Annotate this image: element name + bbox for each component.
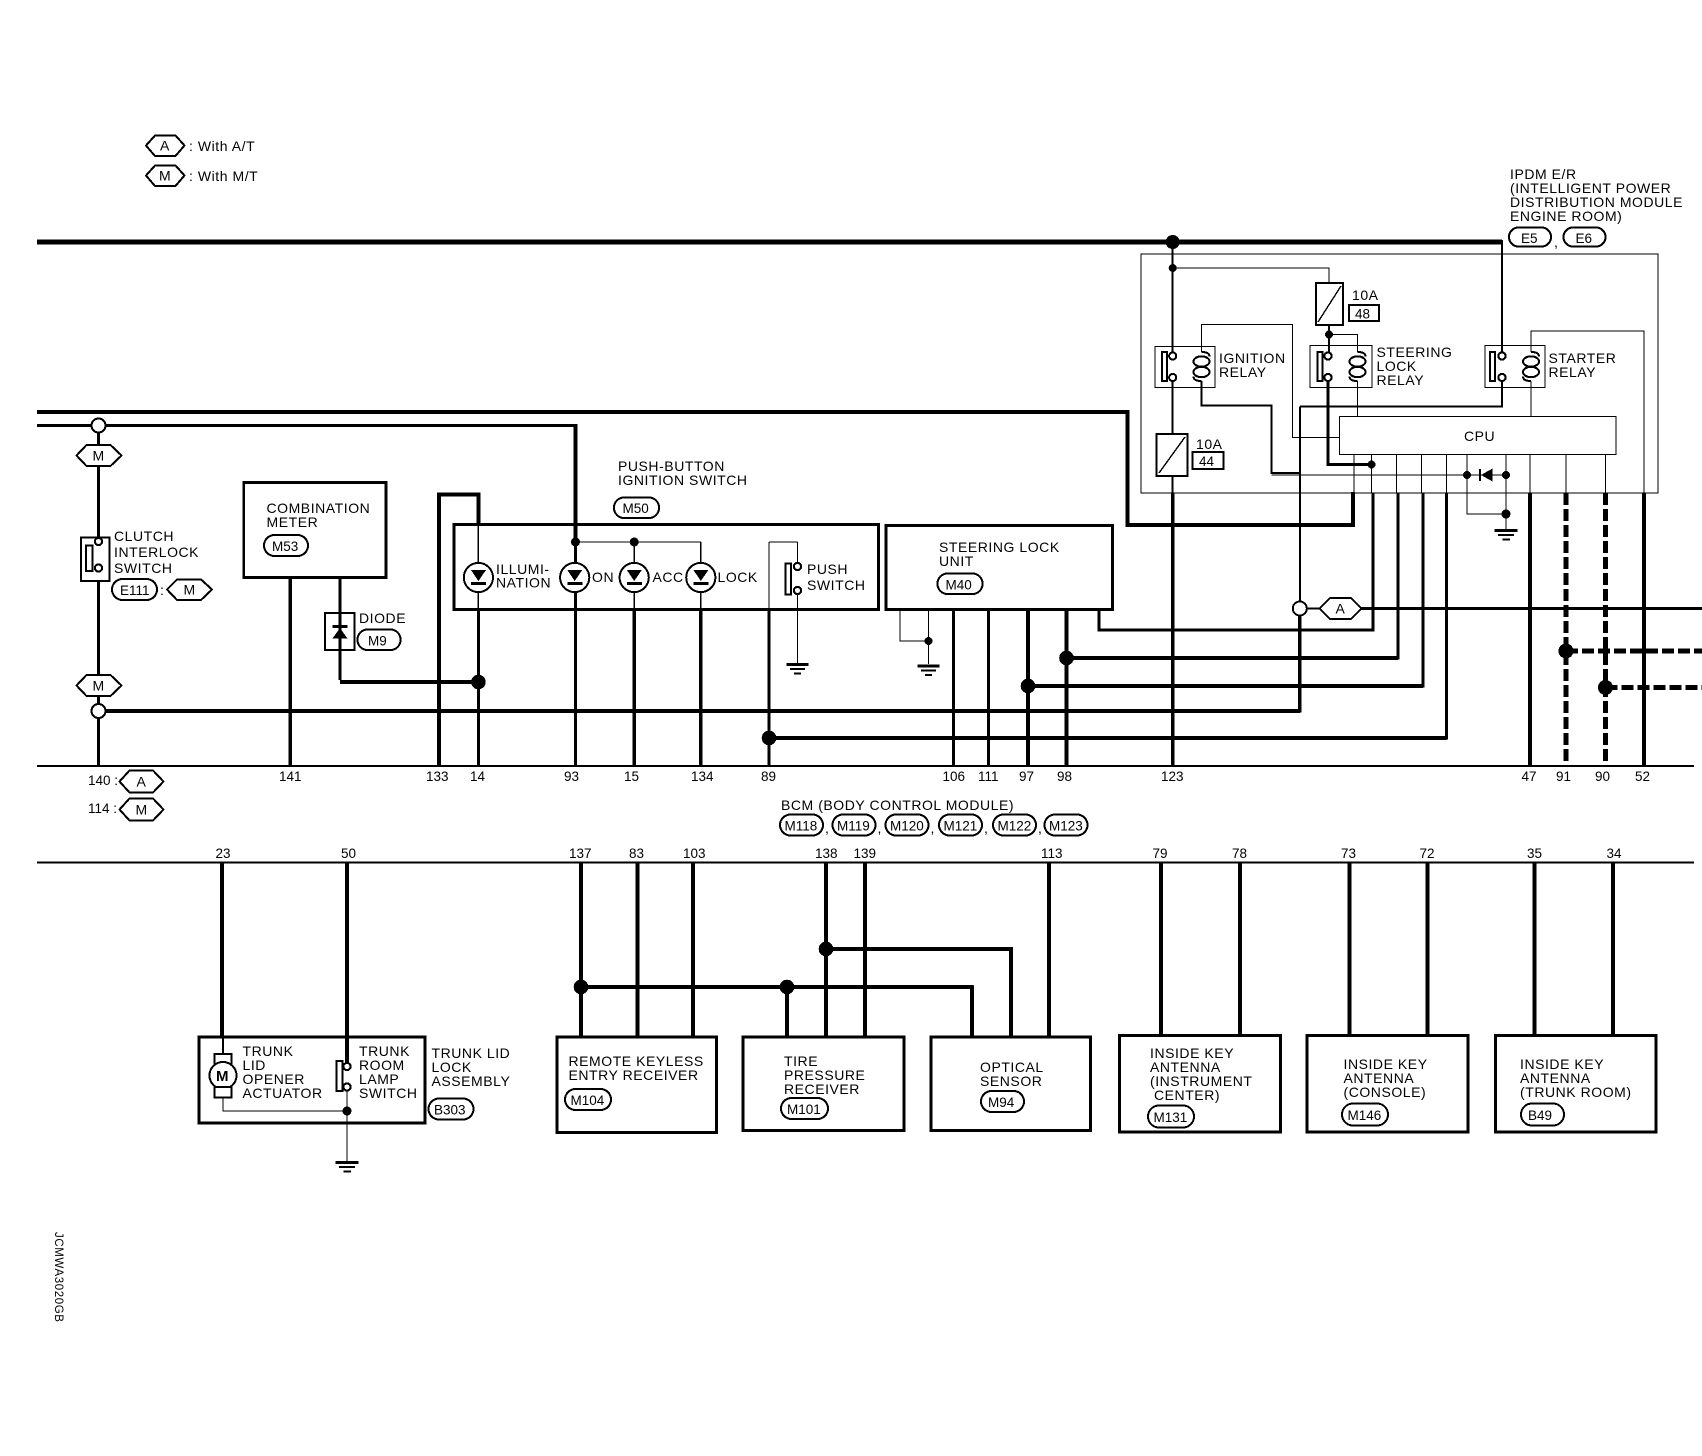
svg-text:78: 78 xyxy=(1232,846,1247,861)
svg-text:23: 23 xyxy=(216,846,231,861)
wire BCM pin 134 drop from LOCK xyxy=(699,609,702,766)
wire optical sensor left pin drop xyxy=(970,986,974,1038)
ground steering lock unit xyxy=(918,666,940,675)
lamp LOCK xyxy=(686,560,758,609)
node hexagon M upper xyxy=(77,445,122,466)
wire CPU pin7 ground leg xyxy=(1505,475,1507,529)
wire corner third bus down to push-button switch ON xyxy=(574,424,578,543)
svg-text:M104: M104 xyxy=(571,1093,605,1108)
node connector circle on third bus (M/T branch) xyxy=(92,419,106,433)
wire BCM pin 139 drop xyxy=(863,863,867,1038)
pin label 140 A/T xyxy=(88,771,164,793)
wire BCM pin 34 drop xyxy=(1611,863,1615,1036)
svg-text:A: A xyxy=(1336,601,1346,617)
wire BCM pin 137 drop xyxy=(579,863,583,1038)
svg-text:98: 98 xyxy=(1057,769,1072,784)
svg-text:ENTRY RECEIVER: ENTRY RECEIVER xyxy=(569,1067,699,1083)
svg-text:111: 111 xyxy=(978,769,999,784)
svg-text:M120: M120 xyxy=(890,819,924,834)
svg-text:,: , xyxy=(931,820,935,836)
svg-text:SENSOR: SENSOR xyxy=(980,1073,1042,1089)
svg-text:M122: M122 xyxy=(998,819,1032,834)
svg-text:73: 73 xyxy=(1341,846,1356,861)
svg-text:RELAY: RELAY xyxy=(1549,364,1597,380)
svg-text:SWITCH: SWITCH xyxy=(807,577,866,593)
connector M118 xyxy=(780,815,829,837)
node junction steering contact to pin line xyxy=(1368,461,1376,469)
svg-text:35: 35 xyxy=(1527,846,1542,861)
svg-text:ASSEMBLY: ASSEMBLY xyxy=(432,1073,511,1089)
svg-text:M118: M118 xyxy=(785,819,818,834)
IPDM E/R box xyxy=(1141,254,1658,493)
connector M120 xyxy=(886,815,935,837)
trunk lid lock assembly box B303 xyxy=(199,1037,425,1123)
svg-text:97: 97 xyxy=(1019,769,1034,784)
wire CPU pin 1 xyxy=(1353,455,1355,494)
svg-text:A: A xyxy=(160,138,170,154)
ground push switch xyxy=(787,665,809,674)
wire tire pressure left pin drop xyxy=(785,987,789,1037)
wire BCM pin 89 drop from push switch xyxy=(767,609,770,766)
node junction trunk ground xyxy=(343,1107,352,1116)
svg-text:91: 91 xyxy=(1556,769,1571,784)
wire CPU pin 3 xyxy=(1396,455,1398,494)
trunk lid lock assembly label B303 xyxy=(429,1045,511,1120)
wire hexagon M lower to connector circle xyxy=(97,696,100,705)
svg-text:83: 83 xyxy=(629,846,644,861)
node junction on top bus feeding IPDM xyxy=(1166,235,1180,249)
wire starter coil bottom to CPU xyxy=(1530,381,1532,417)
node hexagon A split xyxy=(1320,598,1362,619)
combination meter M53 xyxy=(244,483,386,578)
wire BCM pin 35 drop xyxy=(1533,863,1537,1036)
wire SLU ground pin jog xyxy=(900,610,929,642)
wire BCM pin 15 drop from ACC xyxy=(633,609,636,766)
legend hexagon A : With A/T xyxy=(146,136,255,157)
node junction pin 90 xyxy=(1598,680,1613,695)
svg-text:140 :: 140 : xyxy=(88,773,118,788)
connector M119 xyxy=(833,815,882,837)
wire run to fuse 48 xyxy=(1173,268,1329,283)
wire BCM pin 138 drop xyxy=(824,863,828,1038)
wire BCM pin 50 drop xyxy=(345,863,349,1064)
wire IPDM drop to pin 89 run xyxy=(1445,493,1448,740)
connector E5 xyxy=(1509,228,1558,251)
svg-text:48: 48 xyxy=(1355,307,1370,322)
svg-text:RELAY: RELAY xyxy=(1377,372,1425,388)
svg-text:M119: M119 xyxy=(837,819,870,834)
wire fuse 48 to steering lock relay xyxy=(1328,325,1330,353)
node junction pin 138 xyxy=(819,942,834,957)
svg-text:ACTUATOR: ACTUATOR xyxy=(243,1085,323,1101)
wire meter to diode xyxy=(339,578,342,615)
inside key antenna console box M146 xyxy=(1307,1036,1468,1133)
node junction above ACC lamp xyxy=(630,538,639,547)
wire CPU pin 5 xyxy=(1446,455,1448,494)
wire diode run to pin 14 node xyxy=(340,680,478,684)
wire CPU pin 7 xyxy=(1505,455,1507,476)
ignition relay xyxy=(1155,347,1286,388)
wire IPDM drop to pin 97 run xyxy=(1421,493,1424,688)
starter relay xyxy=(1485,346,1616,388)
lamp ACC xyxy=(620,542,684,609)
svg-text:(TRUNK ROOM): (TRUNK ROOM) xyxy=(1520,1084,1632,1100)
wire CPU pin 8 xyxy=(1529,455,1531,494)
svg-text:M94: M94 xyxy=(988,1095,1015,1110)
wire BCM pin 72 drop xyxy=(1426,863,1430,1036)
svg-text:52: 52 xyxy=(1635,769,1650,784)
wire CPU pin 6 xyxy=(1466,455,1468,476)
svg-text:,: , xyxy=(878,820,882,836)
lamp ON xyxy=(560,542,614,609)
svg-text:138: 138 xyxy=(815,846,838,861)
trunk room lamp switch xyxy=(337,1043,418,1101)
svg-text:,: , xyxy=(1554,234,1558,250)
svg-text:123: 123 xyxy=(1161,769,1184,784)
svg-text::: : xyxy=(160,582,164,598)
clutch interlock switch E111 xyxy=(81,528,199,581)
svg-text:M: M xyxy=(184,582,196,598)
node junction pin 137 xyxy=(574,980,589,995)
wire CPU pin 4 xyxy=(1421,455,1423,494)
lamp ILLUMINATION xyxy=(464,525,551,609)
svg-text:IGNITION SWITCH: IGNITION SWITCH xyxy=(618,472,748,488)
wire anode rail ON-ACC-LOCK xyxy=(576,541,701,543)
svg-text:44: 44 xyxy=(1199,454,1215,469)
svg-text:M40: M40 xyxy=(946,578,972,593)
svg-text:113: 113 xyxy=(1041,846,1063,861)
svg-text:141: 141 xyxy=(279,769,302,784)
svg-text:106: 106 xyxy=(943,769,966,784)
motor trunk lid opener actuator xyxy=(210,1037,323,1101)
svg-text:: With M/T: : With M/T xyxy=(189,168,258,184)
svg-text:RECEIVER: RECEIVER xyxy=(784,1081,860,1097)
steering lock unit M40 xyxy=(886,526,1113,610)
fuse 48 10A xyxy=(1316,283,1379,325)
svg-text:CENTER): CENTER) xyxy=(1154,1087,1220,1103)
node A/T connector circle xyxy=(1293,602,1307,616)
remote keyless entry receiver box M104 xyxy=(557,1037,717,1133)
wire BCM pin 103 drop xyxy=(691,863,695,1038)
svg-text:137: 137 xyxy=(569,846,592,861)
svg-text:10A: 10A xyxy=(1352,287,1379,303)
wire ignition relay contact to fuse 44 xyxy=(1172,381,1174,434)
wire BCM pin 79 drop xyxy=(1159,863,1163,1036)
wire shielded run right pin 90 xyxy=(1606,685,1702,690)
wire SLU right pin to IPDM run xyxy=(1099,610,1373,631)
CPU box xyxy=(1340,417,1617,455)
wire steering relay contact to node xyxy=(1328,381,1372,465)
svg-text:M: M xyxy=(93,448,105,464)
inside key antenna instrument center box M131 xyxy=(1120,1036,1281,1133)
inside key antenna trunk room box B49 xyxy=(1496,1036,1657,1133)
svg-text:M9: M9 xyxy=(368,634,387,649)
push switch xyxy=(769,542,866,609)
wire BCM pin 106 drop xyxy=(952,610,955,767)
wire clutch switch to hexagon M lower xyxy=(97,581,100,676)
wire ignition coil top to CPU xyxy=(1202,325,1340,438)
svg-text:M146: M146 xyxy=(1348,1108,1382,1123)
wire BCM pin 97 drop xyxy=(1026,610,1030,767)
svg-text:SWITCH: SWITCH xyxy=(114,560,173,576)
svg-text:JCMWA3020GB: JCMWA3020GB xyxy=(52,1232,64,1323)
wire starter coil top jog xyxy=(1531,331,1644,493)
wire CPU feed from second bus xyxy=(1128,410,1354,525)
fuse 44 10A xyxy=(1157,434,1224,476)
node connector circle M/T join xyxy=(92,704,106,718)
optical sensor box M94 xyxy=(931,1037,1091,1131)
svg-text:CPU: CPU xyxy=(1464,428,1495,444)
node junction on pin 98 wire xyxy=(1059,651,1074,666)
svg-text:ACC: ACC xyxy=(653,569,684,585)
connector M123 xyxy=(1045,815,1088,836)
wire BCM pin 83 drop xyxy=(636,863,640,1038)
svg-text:E5: E5 xyxy=(1521,231,1538,246)
steering lock relay xyxy=(1310,344,1452,388)
wire BCM pin 93 drop from ON xyxy=(574,609,577,766)
connector M121 xyxy=(939,815,988,837)
push-button ignition switch M50 label xyxy=(614,458,748,518)
svg-text:103: 103 xyxy=(683,846,706,861)
svg-text:34: 34 xyxy=(1607,846,1623,861)
ground IPDM CPU xyxy=(1495,531,1518,540)
svg-text:E6: E6 xyxy=(1576,231,1593,246)
wire IPDM drop to pin 98 run xyxy=(1396,493,1399,660)
wire A/T run to right edge xyxy=(1362,607,1702,610)
node junction diode left xyxy=(1463,471,1471,479)
wire hexagon M to clutch interlock switch xyxy=(97,466,100,540)
node junction on pin 89 wire xyxy=(762,731,777,746)
svg-text:133: 133 xyxy=(426,769,449,784)
wire horizontal run pin 89 to IPDM xyxy=(769,736,1447,740)
svg-text:M101: M101 xyxy=(787,1102,821,1117)
tire pressure receiver box M101 xyxy=(743,1037,904,1131)
pin label 114 M/T xyxy=(88,799,164,821)
node junction above ON lamp xyxy=(571,538,580,547)
wire horizontal run pin 97 to IPDM xyxy=(1028,684,1423,688)
wire third bus to ON lamp xyxy=(37,424,577,427)
svg-text:CLUTCH: CLUTCH xyxy=(114,528,174,544)
svg-text:ON: ON xyxy=(592,569,614,585)
wire main power bus top xyxy=(37,240,1502,245)
wire BCM pin 47 drop xyxy=(1528,493,1532,766)
svg-text:M121: M121 xyxy=(944,819,978,834)
svg-text:INTERLOCK: INTERLOCK xyxy=(114,544,199,560)
svg-text:M131: M131 xyxy=(1154,1110,1188,1125)
svg-text:RELAY: RELAY xyxy=(1219,364,1267,380)
wire fuse 44 to BCM pin 123 xyxy=(1172,476,1174,494)
wire BCM pin 140/114 drop xyxy=(97,718,100,766)
wire ignition coil bottom jog xyxy=(1202,381,1300,473)
wire BCM pin 98 drop xyxy=(1065,610,1069,767)
node junction pin 91 xyxy=(1559,644,1574,659)
wire BCM pin 52 drop xyxy=(1642,493,1646,766)
wire push switch ground leg xyxy=(797,594,799,663)
wire LOCK corner down xyxy=(700,542,702,563)
wire steering relay coil bottom to CPU xyxy=(1357,381,1359,417)
wire CPU pin 10 xyxy=(1605,455,1607,494)
node junction ground xyxy=(1502,510,1511,519)
wire internal diode row xyxy=(1272,474,1507,476)
svg-text:PUSH: PUSH xyxy=(807,561,848,577)
node junction on pin 97 wire xyxy=(1021,679,1036,694)
wire BCM pin 141 drop from meter xyxy=(289,578,292,767)
svg-text:47: 47 xyxy=(1522,769,1537,784)
wire starter relay contact bottom run xyxy=(1300,381,1502,407)
wire M/T branch down to hexagon M xyxy=(97,432,100,446)
node junction tire pressure left pin xyxy=(780,980,795,995)
svg-text:SWITCH: SWITCH xyxy=(359,1085,418,1101)
wire run pin 137 to tire pressure receiver xyxy=(581,985,974,989)
wire BCM pin 14 drop from illumination xyxy=(477,609,480,766)
svg-text:B303: B303 xyxy=(434,1103,466,1118)
wire CPU pin 9 xyxy=(1565,455,1567,494)
wire BCM pin 23 drop xyxy=(220,863,224,1038)
svg-text:139: 139 xyxy=(854,846,877,861)
svg-text:E111: E111 xyxy=(120,583,150,598)
wire stub circle to hexagon A xyxy=(1307,608,1320,610)
node junction SLU ground xyxy=(925,637,933,645)
svg-text:UNIT: UNIT xyxy=(939,553,974,569)
svg-text:,: , xyxy=(1038,820,1042,836)
diode M9 xyxy=(325,610,406,650)
svg-text:134: 134 xyxy=(691,769,714,784)
wire switch to ground junction xyxy=(346,1091,348,1162)
svg-text:DIODE: DIODE xyxy=(359,610,406,626)
BCM box top edge xyxy=(37,765,1694,767)
wire run pin 138 to optical sensor xyxy=(826,949,1011,1037)
node junction on pin 14 wire xyxy=(471,675,486,690)
svg-text:(CONSOLE): (CONSOLE) xyxy=(1344,1084,1427,1100)
svg-text:A: A xyxy=(137,774,147,790)
wire horizontal run pin 98 to IPDM xyxy=(1067,656,1399,660)
connector E111 : M xyxy=(112,579,212,600)
svg-text:72: 72 xyxy=(1420,846,1435,861)
svg-text:,: , xyxy=(984,820,988,836)
wire shielded BCM pin 91 drop xyxy=(1564,493,1569,766)
svg-text:114 :: 114 : xyxy=(88,801,117,816)
svg-text:BCM (BODY CONTROL MODULE): BCM (BODY CONTROL MODULE) xyxy=(781,797,1014,813)
node hexagon M lower xyxy=(77,675,122,696)
wire shielded BCM pin 90 drop xyxy=(1603,493,1608,766)
wire M/T horizontal run to A/T split xyxy=(106,709,1301,713)
svg-text:50: 50 xyxy=(341,846,356,861)
wire second bus xyxy=(37,410,1128,414)
wire diode down xyxy=(339,650,342,680)
IPDM E/R label xyxy=(1510,166,1683,224)
wire BCM pin 78 drop xyxy=(1238,863,1242,1036)
wire BCM pin 133 riser and jog over illumination xyxy=(439,495,478,767)
svg-text:93: 93 xyxy=(564,769,579,784)
wire bus feed into IPDM ignition branch xyxy=(1172,242,1174,352)
wire CPU pin 2 xyxy=(1371,455,1373,494)
node junction diode right xyxy=(1502,471,1510,479)
svg-text:M: M xyxy=(159,168,171,184)
svg-text:ENGINE ROOM): ENGINE ROOM) xyxy=(1510,208,1622,224)
svg-text:M123: M123 xyxy=(1049,819,1083,834)
wire diode to ground jog xyxy=(1467,475,1506,514)
svg-text:B49: B49 xyxy=(1528,1108,1552,1123)
wire SLU ground pin 2 xyxy=(928,610,930,665)
node junction below fuse 48 xyxy=(1325,331,1333,339)
svg-text:M53: M53 xyxy=(272,539,298,554)
svg-text:M: M xyxy=(216,1068,229,1085)
svg-text:15: 15 xyxy=(624,769,639,784)
connector E6 xyxy=(1564,228,1606,247)
wire BCM pin 113 drop xyxy=(1047,863,1051,1038)
svg-text:METER: METER xyxy=(267,514,319,530)
svg-text:M50: M50 xyxy=(623,501,649,516)
svg-text:M: M xyxy=(93,678,105,694)
diode internal CPU xyxy=(1480,469,1493,482)
svg-text:LOCK: LOCK xyxy=(718,569,758,585)
node junction ignition branch to fuse 48 xyxy=(1169,264,1177,272)
ground trunk room lamp switch xyxy=(336,1163,359,1172)
BCM box bottom edge xyxy=(37,862,1694,864)
svg-text:14: 14 xyxy=(470,769,486,784)
wire motor to switch junction xyxy=(223,1098,347,1112)
wire fuse 48 to steering relay coil xyxy=(1329,335,1358,353)
svg-text:10A: 10A xyxy=(1196,436,1223,452)
svg-text:: With A/T: : With A/T xyxy=(189,138,255,154)
svg-text:90: 90 xyxy=(1595,769,1610,784)
legend hexagon M : With M/T xyxy=(146,166,258,187)
wire BCM pin 73 drop xyxy=(1348,863,1352,1036)
wire IPDM drop to SLU right pin run xyxy=(1371,493,1374,632)
connector M122 xyxy=(993,815,1042,837)
wire shielded run right pin 91 xyxy=(1566,649,1702,654)
svg-text:89: 89 xyxy=(761,769,776,784)
svg-text:,: , xyxy=(825,820,829,836)
wire BCM pin 111 drop xyxy=(987,610,990,767)
wire connector circle down to M/T run xyxy=(1298,616,1302,713)
svg-text:79: 79 xyxy=(1153,846,1168,861)
wire bus end corner to starter relay contact xyxy=(1501,240,1503,353)
svg-text:M: M xyxy=(136,802,148,818)
push-button ignition switch box M50 xyxy=(454,525,879,610)
wire A/M split riser xyxy=(1299,407,1301,602)
svg-text:NATION: NATION xyxy=(496,575,551,591)
